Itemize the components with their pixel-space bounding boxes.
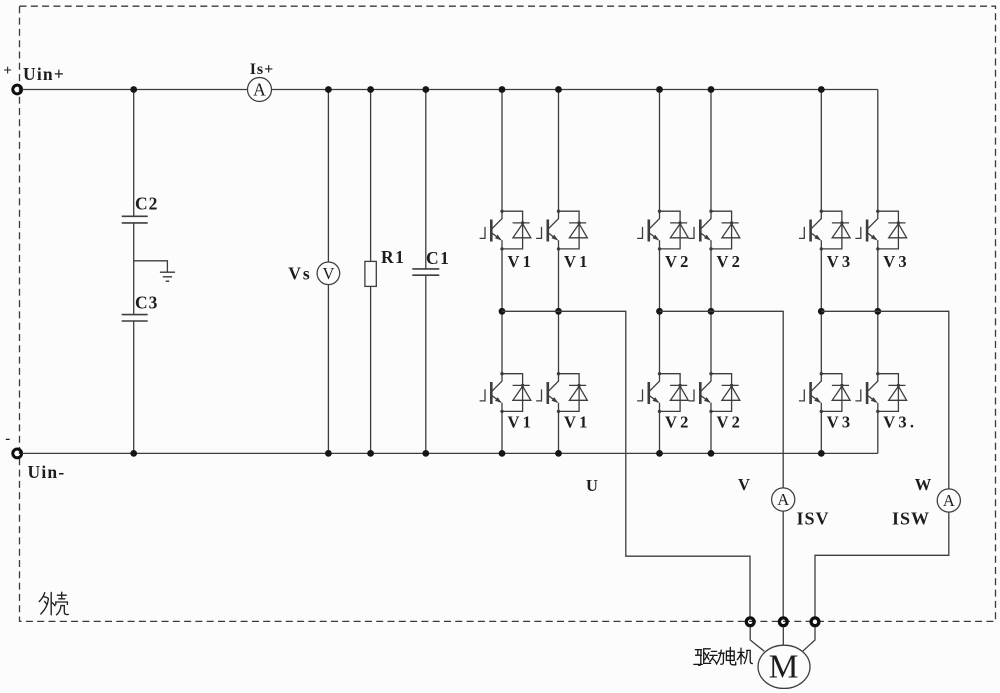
svg-text:+: + xyxy=(3,63,12,79)
transistor V1 lower right (IGBT with freewheel diode) xyxy=(536,372,587,413)
wire C2 to C3 (midpoint) xyxy=(133,223,135,315)
motor M (drive motor 驱动电机) xyxy=(758,645,810,688)
wire C3 to Uin- bus xyxy=(133,321,135,453)
node DC+ bus junction at V2 right column xyxy=(708,86,715,93)
svg-text:ISW: ISW xyxy=(892,509,930,529)
node DC- bus junction at V2 right column xyxy=(708,450,715,457)
svg-text:C2: C2 xyxy=(135,194,158,214)
transistor V2 lower left (IGBT with freewheel diode) xyxy=(637,372,688,413)
node DC+ bus junction at V3 left column xyxy=(818,86,825,93)
terminal motor phase V bushing xyxy=(779,618,787,626)
svg-text:V2: V2 xyxy=(717,252,744,271)
wire resistor R1 to bottom bus xyxy=(370,286,372,453)
terminal motor phase W bushing xyxy=(811,618,819,626)
wire upper IGBT V1 (left) emitter to phase U node xyxy=(501,249,503,311)
terminal motor phase U bushing xyxy=(746,618,754,626)
node phase W midpoint at V3 left column xyxy=(818,308,825,315)
wire phase U output (midpoint rail, down and over to motor terminal) xyxy=(502,311,750,617)
transistor V1 lower left (IGBT with freewheel diode) xyxy=(480,372,531,413)
wire DC+ bus to upper IGBT V3 (left parallel device) collector xyxy=(820,90,822,212)
svg-text:C3: C3 xyxy=(135,293,158,313)
wire upper IGBT V1 (right) emitter to phase U node xyxy=(558,249,560,311)
node DC- bus junction at V2 left column xyxy=(656,450,663,457)
wire DC+ bus to upper IGBT V3 (right parallel device) collector xyxy=(877,90,879,212)
transistor V1 upper right (IGBT with freewheel diode) xyxy=(536,210,587,251)
wire upper IGBT V2 (left) emitter to phase V node xyxy=(659,249,661,311)
ammeter ISW (W-phase current sensor) xyxy=(937,489,960,512)
voltmeter Vs (DC link voltage sensor) xyxy=(317,262,340,285)
ammeter ISV (V-phase current sensor) xyxy=(772,488,795,511)
wire phase W output rail down to ISW xyxy=(821,311,949,489)
wire lower IGBT V3 (left) emitter to DC- bus xyxy=(820,411,822,453)
node DC+ bus junction at V1 right column xyxy=(555,86,562,93)
wire upper IGBT V2 (right) emitter to phase V node xyxy=(710,249,712,311)
node bottom bus / R1 branch xyxy=(367,450,374,457)
wire phase W node to lower IGBT V3 (right) collector xyxy=(877,311,879,373)
capacitor C2 xyxy=(122,216,148,223)
svg-text:Uin+: Uin+ xyxy=(23,64,65,84)
label 驱动电机 (drive motor) xyxy=(694,647,753,665)
node top bus / C2 branch junction xyxy=(130,86,137,93)
node DC- bus junction at V1 left column xyxy=(499,450,506,457)
svg-text:V1: V1 xyxy=(508,252,535,271)
capacitor C3 xyxy=(122,315,148,321)
wire lower IGBT V3 (right) emitter to DC- bus xyxy=(877,411,879,453)
wire upper IGBT V3 (left) emitter to phase W node xyxy=(820,249,822,311)
wire W terminal to motor xyxy=(803,627,815,652)
wire top bus to resistor R1 xyxy=(370,90,372,262)
wire phase V node to lower IGBT V2 (right) collector xyxy=(710,311,712,373)
node bottom bus / C1 branch xyxy=(422,450,429,457)
wire DC+ bus to upper IGBT V1 (right parallel device) collector xyxy=(558,90,560,212)
wire top DC+ bus xyxy=(22,89,878,91)
transistor V3 lower right (IGBT with freewheel diode) xyxy=(855,372,906,413)
svg-text:V3: V3 xyxy=(827,413,854,432)
svg-text:V: V xyxy=(738,475,750,494)
wire U terminal to motor xyxy=(750,627,764,652)
resistor R1 (discharge resistor) xyxy=(365,261,376,286)
wire DC+ bus to upper IGBT V1 (left parallel device) collector xyxy=(501,90,503,212)
svg-text:V3: V3 xyxy=(827,252,854,271)
wire lower IGBT V2 (left) emitter to DC- bus xyxy=(659,411,661,453)
node top bus / C1 branch xyxy=(422,86,429,93)
svg-text:V1: V1 xyxy=(508,413,535,432)
node DC+ bus junction at V1 left column xyxy=(499,86,506,93)
node DC- bus junction at V3 left column xyxy=(818,450,825,457)
transistor V3 lower left (IGBT with freewheel diode) xyxy=(799,372,850,413)
node phase W midpoint at V3 right column xyxy=(874,308,881,315)
wire upper IGBT V3 (right) emitter to phase W node xyxy=(877,249,879,311)
svg-text:C1: C1 xyxy=(426,248,450,268)
wire phase W node to lower IGBT V3 (left) collector xyxy=(820,311,822,373)
node bottom bus / C3 branch junction xyxy=(130,450,137,457)
ground (chassis earth symbol) xyxy=(160,272,175,281)
svg-text:A: A xyxy=(777,490,789,509)
wire bottom DC- bus xyxy=(22,452,878,454)
svg-text:V1: V1 xyxy=(564,413,591,432)
node bottom bus / Vs branch xyxy=(325,450,332,457)
node phase U midpoint at V1 right column xyxy=(555,308,562,315)
svg-text:V3: V3 xyxy=(883,252,910,271)
wire phase V node to lower IGBT V2 (left) collector xyxy=(659,311,661,373)
svg-text:V2: V2 xyxy=(717,413,744,432)
terminal Uin+ (positive DC input) xyxy=(13,85,22,94)
svg-text:Uin-: Uin- xyxy=(28,462,66,482)
wire DC+ bus to upper IGBT V2 (left parallel device) collector xyxy=(659,90,661,212)
node phase V midpoint at V2 left column xyxy=(656,308,663,315)
svg-text:A: A xyxy=(253,80,266,100)
wire V terminal to motor xyxy=(782,627,784,646)
svg-text:ISV: ISV xyxy=(796,509,829,529)
transistor V3 upper left (IGBT with freewheel diode) xyxy=(799,210,850,251)
label 外壳 (case) xyxy=(39,592,68,615)
capacitor C1 (DC link capacitor) xyxy=(412,269,439,275)
wire midpoint to ground xyxy=(134,261,168,272)
node phase V midpoint at V2 right column xyxy=(708,308,715,315)
svg-text:V2: V2 xyxy=(665,252,692,271)
svg-text:V1: V1 xyxy=(564,252,591,271)
terminal Uin- (negative DC input) xyxy=(13,449,22,458)
svg-text:V2: V2 xyxy=(665,413,692,432)
svg-text:M: M xyxy=(769,649,799,686)
wire DC+ bus to upper IGBT V2 (right parallel device) collector xyxy=(710,90,712,212)
svg-text:R1: R1 xyxy=(381,247,405,267)
transistor V1 upper left (IGBT with freewheel diode) xyxy=(480,210,531,251)
svg-text:W: W xyxy=(915,475,932,494)
wire phase U node to lower IGBT V1 (left) collector xyxy=(501,311,503,373)
wire ISV to motor terminal xyxy=(782,511,784,617)
node top bus / Vs branch xyxy=(325,86,332,93)
node phase U midpoint at V1 left column xyxy=(499,308,506,315)
transistor V2 lower right (IGBT with freewheel diode) xyxy=(689,372,740,413)
wire ISW down and over to motor terminal xyxy=(815,512,949,617)
svg-text:Is+: Is+ xyxy=(250,61,275,78)
wire voltmeter Vs to bottom bus xyxy=(327,285,329,454)
wire top bus to voltmeter Vs xyxy=(327,90,329,262)
node top bus / R1 branch xyxy=(367,86,374,93)
wire phase U node to lower IGBT V1 (right) collector xyxy=(558,311,560,373)
svg-text:V3.: V3. xyxy=(883,413,917,432)
node DC- bus junction at V1 right column xyxy=(555,450,562,457)
transistor V2 upper right (IGBT with freewheel diode) xyxy=(689,210,740,251)
transistor V3 upper right (IGBT with freewheel diode) xyxy=(855,210,906,251)
wire lower IGBT V2 (right) emitter to DC- bus xyxy=(710,411,712,453)
wire lower IGBT V1 (right) emitter to DC- bus xyxy=(558,411,560,453)
svg-text:-: - xyxy=(5,431,10,447)
wire capacitor C1 to bottom bus xyxy=(425,275,427,453)
svg-text:V: V xyxy=(322,264,334,283)
ammeter Is+ (input current sensor) xyxy=(248,78,272,102)
svg-text:A: A xyxy=(943,491,955,510)
svg-text:U: U xyxy=(586,476,598,495)
svg-text:Vs: Vs xyxy=(288,264,311,284)
wire lower IGBT V1 (left) emitter to DC- bus xyxy=(501,411,503,453)
node DC+ bus junction at V2 left column xyxy=(656,86,663,93)
wire Uin+ bus to C2 xyxy=(133,90,135,217)
wire phase V output rail down to ISV xyxy=(660,311,784,488)
wire top bus to capacitor C1 xyxy=(425,90,427,269)
transistor V2 upper left (IGBT with freewheel diode) xyxy=(637,210,688,251)
